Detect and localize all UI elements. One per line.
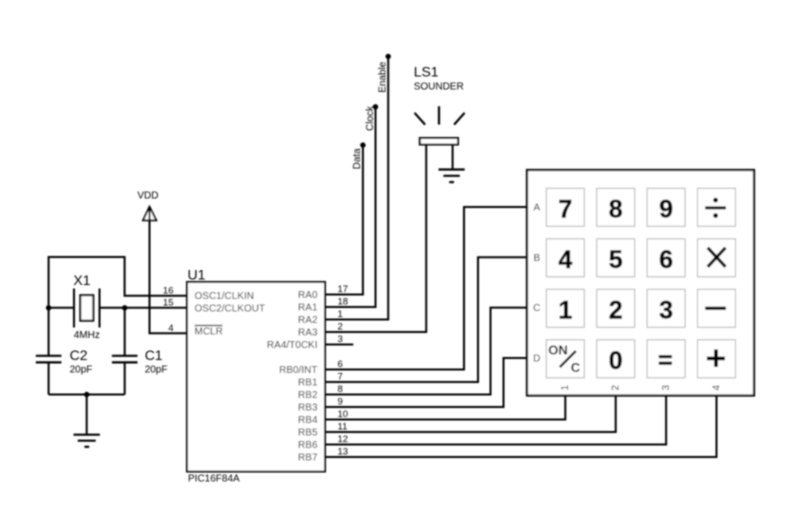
svg-text:15: 15 xyxy=(163,297,174,308)
svg-text:9: 9 xyxy=(659,195,673,223)
svg-text:6: 6 xyxy=(338,359,343,370)
svg-text:2: 2 xyxy=(609,296,623,324)
svg-text:0: 0 xyxy=(609,347,623,375)
svg-text:RA2: RA2 xyxy=(298,315,318,326)
svg-text:2: 2 xyxy=(338,322,343,333)
svg-text:2: 2 xyxy=(611,385,622,391)
svg-text:RB0/INT: RB0/INT xyxy=(279,365,317,376)
svg-text:OSC2/CLKOUT: OSC2/CLKOUT xyxy=(195,303,266,314)
svg-text:X1: X1 xyxy=(73,272,90,288)
svg-text:OSC1/CLKIN: OSC1/CLKIN xyxy=(195,291,254,302)
svg-text:8: 8 xyxy=(338,384,343,395)
svg-text:18: 18 xyxy=(338,297,349,308)
svg-text:7: 7 xyxy=(558,195,572,223)
svg-text:17: 17 xyxy=(338,284,349,295)
svg-text:C2: C2 xyxy=(70,347,88,363)
svg-text:3: 3 xyxy=(338,334,343,345)
svg-text:20pF: 20pF xyxy=(70,365,93,376)
svg-text:3: 3 xyxy=(659,296,673,324)
svg-text:RB6: RB6 xyxy=(298,440,318,451)
svg-text:3: 3 xyxy=(661,385,672,391)
svg-text:1: 1 xyxy=(338,309,343,320)
svg-text:7: 7 xyxy=(338,372,343,383)
svg-text:MCLR: MCLR xyxy=(195,327,223,338)
svg-text:RA4/T0CKI: RA4/T0CKI xyxy=(267,340,318,351)
svg-text:4: 4 xyxy=(558,246,572,274)
svg-text:LS1: LS1 xyxy=(414,64,439,80)
svg-text:VDD: VDD xyxy=(137,191,158,202)
svg-text:1: 1 xyxy=(558,296,572,324)
svg-text:RA3: RA3 xyxy=(298,328,318,339)
svg-text:RB7: RB7 xyxy=(298,453,318,464)
svg-text:PIC16F84A: PIC16F84A xyxy=(188,474,240,485)
svg-text:RB3: RB3 xyxy=(298,403,318,414)
svg-text:4MHz: 4MHz xyxy=(74,330,100,341)
svg-text:RA0: RA0 xyxy=(298,290,318,301)
svg-text:4: 4 xyxy=(711,385,722,391)
svg-text:13: 13 xyxy=(338,447,349,458)
svg-text:8: 8 xyxy=(609,195,623,223)
svg-text:B: B xyxy=(533,253,540,264)
svg-text:A: A xyxy=(533,203,540,214)
svg-text:20pF: 20pF xyxy=(145,365,168,376)
svg-text:10: 10 xyxy=(338,409,349,420)
svg-text:U1: U1 xyxy=(188,267,206,283)
svg-text:6: 6 xyxy=(659,246,673,274)
svg-text:ON: ON xyxy=(548,342,568,357)
svg-text:RB4: RB4 xyxy=(298,415,318,426)
svg-text:D: D xyxy=(533,354,540,365)
svg-text:RB5: RB5 xyxy=(298,428,318,439)
svg-text:RA1: RA1 xyxy=(298,303,318,314)
svg-text:RB1: RB1 xyxy=(298,378,318,389)
svg-text:1: 1 xyxy=(560,385,571,391)
svg-text:9: 9 xyxy=(338,397,343,408)
svg-text:16: 16 xyxy=(163,285,174,296)
svg-text:12: 12 xyxy=(338,434,349,445)
svg-text:11: 11 xyxy=(338,422,348,433)
svg-text:C: C xyxy=(533,303,540,314)
svg-text:C1: C1 xyxy=(145,347,163,363)
svg-text:Clock: Clock xyxy=(365,105,376,131)
svg-text:5: 5 xyxy=(609,246,623,274)
svg-text:Data: Data xyxy=(352,148,363,170)
svg-text:C: C xyxy=(571,360,581,375)
svg-text:Enable: Enable xyxy=(377,61,388,93)
svg-text:SOUNDER: SOUNDER xyxy=(414,82,464,93)
svg-text:RB2: RB2 xyxy=(298,390,318,401)
svg-text:4: 4 xyxy=(168,323,173,334)
